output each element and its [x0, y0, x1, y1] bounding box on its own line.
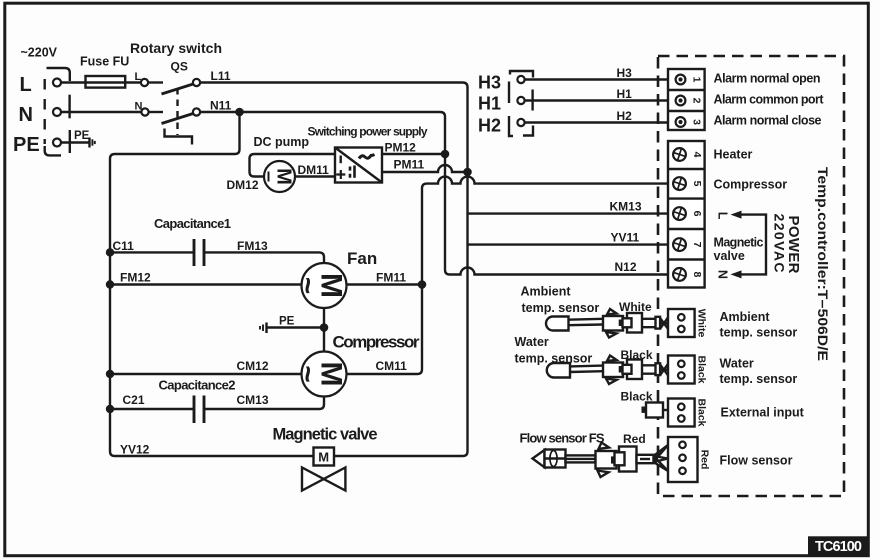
power bracket	[740, 215, 766, 275]
ambient sensor connector	[603, 316, 623, 331]
svg-text:Rotary switch: Rotary switch	[130, 40, 222, 56]
wire stub L contact	[148, 81, 163, 83]
rotary switch QS pole N: contact circles	[141, 108, 148, 115]
node rail dot C11	[106, 248, 114, 256]
terminal 3	[676, 117, 686, 127]
wire L pin to fuse	[61, 81, 141, 83]
svg-text:220VAC: 220VAC	[772, 214, 788, 273]
svg-text:DC pump: DC pump	[254, 135, 310, 149]
terminal 5	[671, 176, 703, 192]
svg-text:temp. sensor: temp. sensor	[522, 301, 600, 315]
svg-text:Flow sensor: Flow sensor	[720, 454, 793, 468]
capacitor C1	[110, 251, 194, 253]
svg-text:H3: H3	[617, 66, 633, 80]
rotary switch QS pole L: contact circles	[141, 79, 148, 86]
svg-text:Water: Water	[515, 335, 549, 349]
terminal 4	[671, 146, 703, 162]
svg-text:CM11: CM11	[376, 359, 408, 373]
svg-text:PE: PE	[74, 130, 90, 142]
ambient plug	[627, 313, 642, 333]
wire CM13 to compressor bottom	[204, 397, 324, 410]
terminal 6	[671, 206, 703, 222]
terminal block 1-3	[668, 69, 705, 130]
svg-text:QS: QS	[171, 60, 188, 74]
node N11 junction dot	[235, 108, 244, 117]
wire KM13 branch to terminal 6	[468, 212, 669, 214]
switch blade N	[162, 114, 194, 124]
svg-text:Capacitance2: Capacitance2	[159, 378, 236, 393]
wire FM12	[110, 283, 302, 285]
svg-text:DM12: DM12	[227, 178, 259, 192]
svg-text:~: ~	[291, 365, 324, 383]
svg-text:CM13: CM13	[237, 393, 269, 407]
svg-text:H1: H1	[617, 87, 633, 101]
svg-text:6: 6	[691, 211, 703, 217]
svg-text:Alarm normal close: Alarm normal close	[714, 114, 822, 128]
svg-text:~: ~	[291, 277, 324, 295]
svg-text:Switching power supply: Switching power supply	[308, 125, 428, 139]
svg-text:Heater: Heater	[714, 148, 753, 162]
svg-text:Compressor: Compressor	[714, 178, 788, 192]
wire N11 dot down and left to neutral rail, rail down to valve	[110, 112, 314, 456]
wire H1 to terminal 2	[525, 99, 668, 101]
wire N11 from switch to V1 down then N12 row to terminal 8	[200, 112, 668, 275]
ground PE input	[88, 138, 90, 148]
node rail dot FM12	[106, 280, 114, 288]
wire FM11 fan to junction	[347, 283, 423, 285]
terminal 1	[676, 75, 686, 85]
svg-text:Ambient: Ambient	[720, 310, 771, 324]
svg-text:FM11: FM11	[376, 271, 406, 285]
terminal pin L	[53, 79, 61, 87]
input connector bracket bottom corner	[45, 146, 61, 155]
svg-text:L: L	[716, 212, 730, 220]
svg-text:3: 3	[691, 119, 703, 125]
temp controller dashed enclosure	[658, 56, 844, 496]
svg-text:PM12: PM12	[385, 141, 417, 155]
wire H3 to terminal 1	[525, 78, 668, 80]
external input connector	[642, 407, 647, 413]
flow sensor body	[533, 450, 545, 467]
SPS AC tilde mark	[359, 155, 375, 159]
arrow L	[731, 211, 742, 219]
wire PE branch	[267, 326, 324, 328]
motor DC pump DM	[264, 161, 295, 192]
ambient sensor bulb	[546, 317, 569, 331]
svg-text:Magnetic valve: Magnetic valve	[273, 426, 378, 444]
svg-text:C11: C11	[113, 239, 135, 253]
node rail dot CM12	[106, 370, 114, 378]
terminal pin PE	[53, 139, 61, 147]
svg-text:Alarm normal open: Alarm normal open	[714, 72, 821, 86]
terminal pin N	[53, 108, 61, 116]
svg-text:temp. sensor: temp. sensor	[720, 326, 798, 340]
svg-text:Temp.controller:T−506D/E: Temp.controller:T−506D/E	[815, 167, 830, 361]
svg-text:C21: C21	[123, 393, 145, 407]
H connector side segment 2	[509, 116, 513, 136]
SPS DC marks	[340, 156, 342, 164]
wire N pin to switch	[61, 111, 141, 113]
svg-text:L: L	[20, 74, 32, 96]
svg-text:TC6100: TC6100	[815, 539, 862, 555]
water sensor block	[668, 356, 695, 384]
svg-text:L11: L11	[211, 69, 231, 83]
svg-text:valve: valve	[714, 249, 745, 263]
svg-text:Red: Red	[623, 432, 646, 446]
pin H2	[517, 119, 524, 126]
svg-text:temp. sensor: temp. sensor	[720, 372, 798, 386]
wire compressor feed: terminal 5 row with hops over V1 V2, down at x422 to motors	[347, 177, 668, 374]
svg-text:White: White	[696, 309, 708, 338]
H connector bracket bottom	[523, 126, 533, 136]
switch bracket	[165, 129, 193, 145]
svg-text:1: 1	[691, 77, 703, 83]
svg-text:KM13: KM13	[610, 200, 642, 214]
switch gang dashed link	[176, 88, 178, 135]
ambient sensor stem	[569, 319, 604, 325]
node PM11 junction dot	[463, 168, 472, 177]
switching power supply box	[335, 148, 382, 183]
ambient wires to block	[642, 319, 657, 327]
svg-text:Black: Black	[696, 398, 708, 426]
svg-text:N: N	[19, 104, 33, 126]
terminal 8	[671, 266, 703, 282]
water sensor connector	[603, 363, 623, 378]
flow plug	[619, 447, 637, 472]
node rail dot C21	[106, 405, 114, 413]
input connector bracket top	[47, 68, 70, 81]
water wires to block	[642, 365, 657, 373]
input connector tick N	[68, 95, 70, 119]
svg-text:External input: External input	[721, 406, 805, 420]
svg-text:N: N	[135, 101, 143, 113]
wire L11 from switch down right side (V2) to magnetic valve	[200, 83, 467, 457]
svg-text:Magnetic: Magnetic	[714, 236, 764, 250]
wire PE pin	[61, 141, 89, 143]
svg-text:5: 5	[691, 181, 703, 187]
svg-text:L: L	[135, 71, 142, 83]
svg-text:PM11: PM11	[394, 158, 425, 172]
H connector side segment 1	[508, 82, 510, 104]
svg-text:CM12: CM12	[237, 359, 269, 373]
flow sensor stem	[566, 455, 596, 462]
arrow N	[731, 270, 742, 278]
water plug	[627, 360, 642, 380]
svg-text:YV11: YV11	[611, 231, 640, 245]
svg-text:FM13: FM13	[237, 239, 268, 253]
svg-text:Flow sensor FS: Flow sensor FS	[520, 431, 605, 446]
ambient sensor block	[668, 309, 695, 337]
svg-text:H2: H2	[617, 109, 633, 123]
svg-text:Alarm common port: Alarm common port	[714, 93, 825, 107]
flow sensor block	[668, 437, 698, 482]
water sensor bulb	[547, 363, 570, 378]
input connector tick PE	[69, 130, 71, 153]
ground PE mid	[265, 323, 267, 334]
node PM12 junction dot	[441, 150, 450, 159]
svg-text:H2: H2	[478, 116, 501, 136]
svg-text:Capacitance1: Capacitance1	[154, 216, 231, 231]
wire FM13 to fan top	[204, 252, 324, 263]
node PE junction dot	[320, 323, 329, 332]
TC6100 badge	[808, 536, 870, 555]
svg-text:Fan: Fan	[347, 249, 377, 268]
wire H2 to terminal 3	[525, 121, 668, 123]
svg-text:Ambient: Ambient	[521, 285, 572, 299]
wire YV11 branch to terminal 7	[468, 243, 669, 245]
svg-text:DM11: DM11	[298, 163, 330, 177]
wire PM12 to V1	[382, 153, 445, 155]
svg-text:PE: PE	[13, 134, 40, 156]
H connector bracket top	[510, 71, 533, 78]
wire CM12	[110, 373, 302, 375]
svg-text:Compressor: Compressor	[333, 333, 420, 352]
magnetic valve YV	[314, 448, 335, 466]
svg-text:7: 7	[691, 242, 703, 248]
node FM11 junction dot	[418, 280, 427, 289]
svg-text:YV12: YV12	[120, 443, 150, 457]
terminal block 4-8	[668, 141, 705, 288]
water sensor stem	[570, 366, 603, 372]
input connector dashed side	[44, 79, 46, 144]
external input block	[668, 399, 695, 427]
motor fan FM	[302, 263, 347, 308]
flow wires to block	[654, 445, 669, 471]
svg-text:M: M	[318, 450, 329, 465]
svg-text:PE: PE	[279, 316, 295, 328]
svg-text:4: 4	[691, 152, 703, 158]
svg-text:N11: N11	[210, 99, 232, 113]
svg-text:Water: Water	[720, 357, 754, 371]
pin H1	[517, 97, 524, 104]
wire fan bottom to compressor top	[323, 308, 325, 352]
terminal 2	[676, 96, 686, 106]
svg-text:8: 8	[691, 271, 703, 277]
pin H3	[517, 76, 524, 83]
terminal 7	[671, 237, 703, 253]
H connector mid tick	[531, 90, 533, 111]
motor compressor CM	[302, 352, 347, 397]
wire PM11 to V2 with hop over V1	[382, 165, 468, 172]
fuse FU	[86, 76, 126, 88]
wire stub N contact	[149, 111, 163, 113]
svg-text:~220V: ~220V	[21, 46, 58, 60]
svg-text:Black: Black	[696, 355, 708, 383]
svg-text:N: N	[716, 270, 730, 279]
svg-text:2: 2	[691, 98, 703, 104]
capacitor C2	[110, 408, 194, 410]
svg-text:FM12: FM12	[120, 271, 151, 285]
switch blade L	[162, 84, 194, 94]
flow sensor connector	[596, 451, 617, 469]
svg-text:H3: H3	[478, 73, 501, 93]
wire DM11 pump to SPS	[295, 175, 335, 177]
svg-text:Fuse FU: Fuse FU	[80, 55, 129, 69]
wire pump loop top	[250, 154, 336, 177]
svg-text:Red: Red	[699, 450, 711, 470]
svg-text:N12: N12	[615, 260, 637, 274]
svg-text:H1: H1	[478, 94, 501, 114]
svg-text:M: M	[273, 168, 295, 185]
